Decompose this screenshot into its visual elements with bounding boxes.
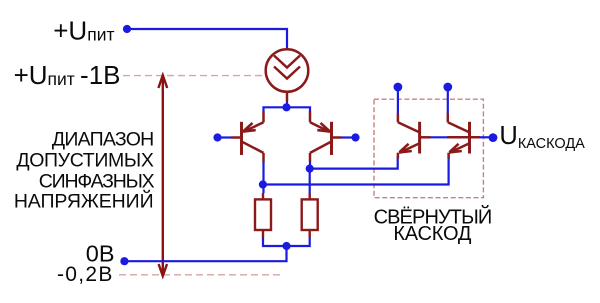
node dot B (259, 180, 267, 188)
wire node A to Q3 emitter (310, 157, 398, 169)
wire resistor bottoms to 0V rail (124, 237, 309, 261)
range arrow (double headed) (158, 75, 167, 276)
svg-text:+Uпит: +Uпит (53, 15, 114, 45)
wire Q3-Q4 base link (431, 136, 448, 138)
Q1 emitter arrow (242, 123, 256, 133)
svg-text:КАСКОД: КАСКОД (393, 223, 472, 245)
svg-text:-0,2В: -0,2В (57, 263, 114, 286)
svg-text:ДИАПАЗОН: ДИАПАЗОН (52, 128, 154, 150)
svg-text:+Uпит -1В: +Uпит -1В (14, 60, 121, 90)
node dot 0V (120, 257, 128, 265)
svg-text:СИНФАЗНЫХ: СИНФАЗНЫХ (39, 171, 155, 193)
node dot +Uпит (123, 25, 131, 33)
wire Q1 base (218, 136, 233, 138)
resistor R1 (255, 193, 271, 238)
current source I1 (266, 49, 309, 101)
resistor R2 (302, 193, 318, 238)
wire Q1 collector to R1 (262, 162, 264, 193)
wire node B to Q4 emitter (263, 157, 449, 185)
node dot Q2 base (351, 133, 359, 141)
node dot A (306, 165, 314, 173)
wire Q2 base (341, 136, 356, 138)
Q2 emitter arrow (317, 123, 331, 133)
wire tail node (264, 101, 311, 113)
label СВЁРНУТЫЙ КАСКОД (374, 204, 492, 245)
transistor Q2 (right PNP of diff pair) (310, 112, 342, 162)
transistor Q1 (left PNP of diff pair) (232, 112, 264, 163)
wire +Uпит rail (127, 29, 287, 50)
svg-text:ДОПУСТИМЫХ: ДОПУСТИМЫХ (16, 150, 153, 172)
node dot Uкаскода (489, 133, 498, 142)
transistor Q3 (left cascode) (398, 114, 431, 159)
dashed level line -0,2В (119, 274, 281, 276)
node dot Q1 base (213, 133, 221, 141)
wire Q3 collector up (397, 87, 399, 115)
Q3 emitter arrow (398, 144, 412, 154)
node dot Q4 top (443, 83, 452, 92)
svg-text:НАПРЯЖЕНИЙ: НАПРЯЖЕНИЙ (14, 189, 154, 213)
label block ДИАПАЗОН (14, 128, 155, 212)
wire node A down to R2 (309, 169, 311, 193)
dashed box folded cascode (374, 99, 483, 198)
svg-text:UКАСКОДА: UКАСКОДА (499, 122, 585, 152)
wire Q4 base to output (480, 136, 489, 138)
wire Q2 collector to node A (309, 161, 311, 169)
Q4 emitter arrow (448, 144, 462, 154)
transistor Q4 (right cascode) (447, 114, 480, 159)
wire Q4 collector up (447, 87, 449, 115)
node dot tail (282, 103, 290, 111)
dashed level line +Uпит-1В (123, 75, 265, 77)
node dot C (282, 242, 290, 250)
node dot Q3 top (394, 83, 403, 92)
